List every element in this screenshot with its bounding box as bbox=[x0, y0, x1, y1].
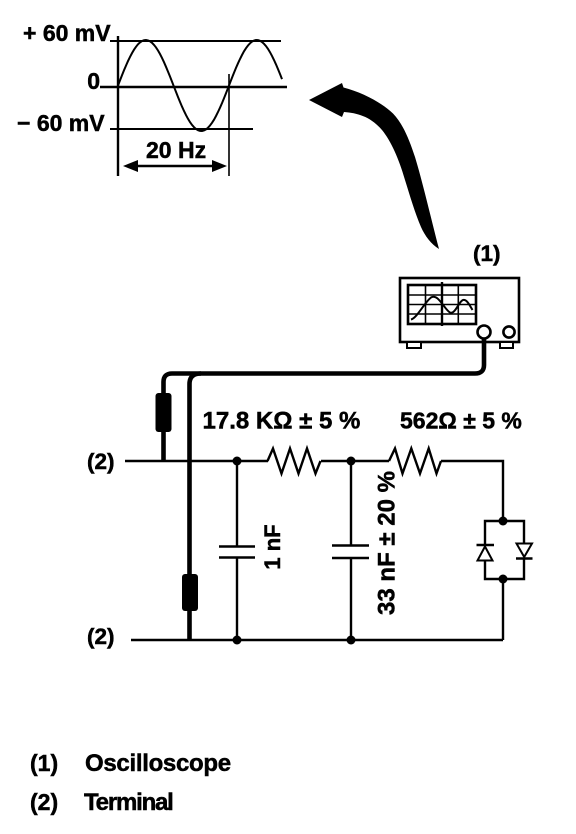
junction node top-mid bbox=[347, 457, 356, 466]
oscilloscope knob 1 bbox=[478, 326, 491, 339]
svg-text:0: 0 bbox=[87, 68, 100, 94]
waveform graph: -60 gridline bbox=[110, 128, 253, 130]
oscilloscope left foot bbox=[407, 342, 421, 348]
svg-text:17.8 KΩ ± 5 %: 17.8 KΩ ± 5 % bbox=[203, 408, 361, 435]
capacitor C1 1nF top lead bbox=[236, 461, 238, 546]
capacitor C1 bottom lead bbox=[236, 558, 238, 640]
oscilloscope screen trace bbox=[411, 297, 473, 320]
capacitor C2 bottom lead bbox=[350, 558, 352, 640]
junction node diode top bbox=[499, 517, 508, 526]
junction node diode bottom bbox=[499, 575, 508, 584]
capacitor C2 33nF top lead bbox=[350, 461, 352, 545]
bottom rail wire bbox=[131, 639, 503, 642]
waveform graph: period double arrow bbox=[130, 165, 220, 167]
oscilloscope right foot bbox=[500, 342, 513, 348]
svg-text:Oscilloscope: Oscilloscope bbox=[85, 750, 231, 777]
curved pointer arrow bbox=[309, 83, 439, 249]
junction node top-left bbox=[233, 457, 242, 466]
waveform graph: zero axis line bbox=[100, 86, 287, 89]
svg-text:Terminal: Terminal bbox=[84, 789, 173, 816]
waveform graph: right period marker line bbox=[228, 74, 230, 176]
svg-text:33 nF ± 20 %: 33 nF ± 20 % bbox=[374, 471, 401, 615]
svg-text:20 Hz: 20 Hz bbox=[146, 137, 206, 163]
wire between resistors bbox=[321, 460, 389, 462]
svg-text:(2): (2) bbox=[87, 449, 115, 474]
resistor R2 562 zigzag bbox=[389, 449, 441, 474]
diode pair box bottom bbox=[485, 559, 524, 580]
probe connector blob A bbox=[156, 393, 172, 432]
svg-text:− 60 mV: − 60 mV bbox=[17, 110, 105, 136]
svg-text:(1): (1) bbox=[473, 241, 501, 266]
waveform graph: +60 gridline bbox=[110, 40, 281, 42]
oscilloscope knob 2 bbox=[503, 326, 514, 337]
svg-text:562Ω ± 5 %: 562Ω ± 5 % bbox=[400, 408, 522, 434]
resistor R1 17.8k zigzag bbox=[268, 449, 321, 474]
svg-text:(2): (2) bbox=[87, 624, 115, 649]
wire resistor R2 to right corner, down to diodes bbox=[441, 461, 503, 521]
probe cable from scope bbox=[164, 338, 485, 461]
probe connector blob B bbox=[182, 574, 198, 611]
oscilloscope U1: case bbox=[400, 278, 519, 342]
diode D1 (left, cathode up) bbox=[477, 544, 495, 546]
diode D2 (right, cathode down) bbox=[517, 544, 533, 558]
capacitor C2 plates bbox=[332, 544, 369, 547]
top rail wire (2) to resistor R1 bbox=[125, 460, 268, 462]
svg-text:1 nF: 1 nF bbox=[260, 524, 285, 569]
waveform graph: sine trace bbox=[118, 40, 282, 131]
oscilloscope screen bbox=[408, 285, 476, 324]
junction node bottom-mid bbox=[347, 636, 356, 645]
oscilloscope screen grid bbox=[425, 286, 427, 323]
svg-text:(1): (1) bbox=[30, 750, 58, 776]
probe lead B wire bbox=[190, 374, 202, 641]
junction node bottom-left bbox=[233, 636, 242, 645]
capacitor C1 plates bbox=[219, 545, 255, 548]
svg-text:(2): (2) bbox=[30, 789, 58, 815]
diode pair box top bbox=[485, 521, 524, 545]
wire diodes to bottom rail bbox=[502, 579, 504, 640]
svg-text:+ 60 mV: + 60 mV bbox=[23, 20, 111, 46]
waveform graph: vertical axis bbox=[117, 36, 119, 176]
